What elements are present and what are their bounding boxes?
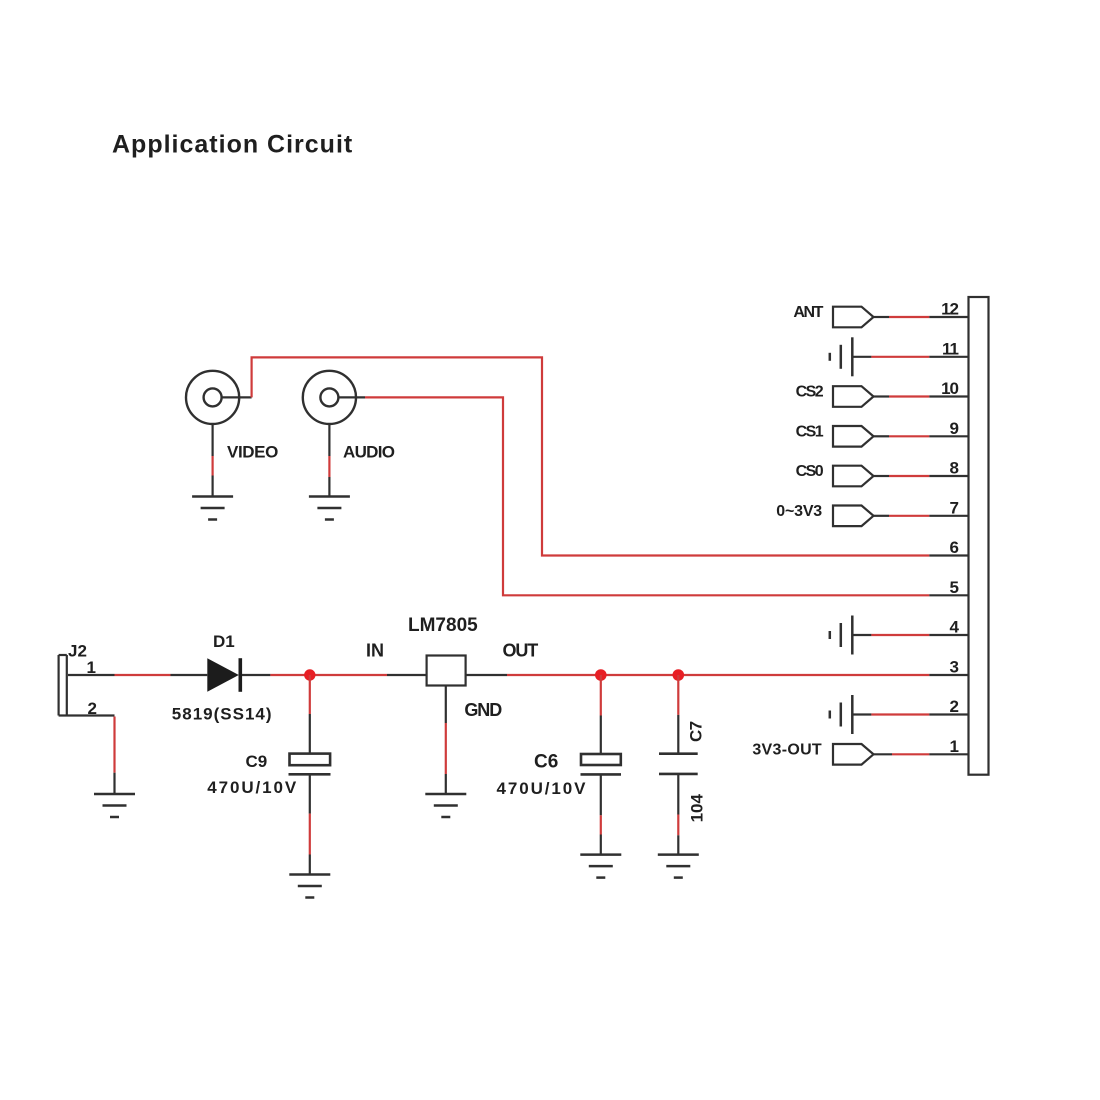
wire AUDIO ground lead bbox=[328, 424, 330, 497]
wire pin 2 bbox=[852, 713, 968, 715]
svg-text:9: 9 bbox=[950, 419, 959, 438]
capacitor C7 plates bbox=[659, 754, 698, 774]
ground (C9) bbox=[289, 875, 330, 898]
diode D1 bbox=[207, 658, 240, 692]
svg-text:OUT: OUT bbox=[503, 641, 539, 661]
svg-text:D1: D1 bbox=[213, 632, 235, 651]
connector AUDIO (RCA jack) bbox=[303, 371, 356, 424]
regulator LM7805 bbox=[427, 656, 466, 686]
svg-text:3V3-OUT: 3V3-OUT bbox=[752, 741, 822, 758]
wire pin 4 bbox=[852, 634, 968, 636]
svg-text:AUDIO: AUDIO bbox=[343, 443, 395, 462]
svg-text:C9: C9 bbox=[246, 752, 268, 771]
wire pin 11 bbox=[852, 356, 968, 358]
wire D1 to LM7805 IN bbox=[242, 674, 427, 676]
wire VIDEO ground lead bbox=[212, 424, 214, 497]
svg-text:10: 10 bbox=[941, 379, 958, 398]
svg-text:CS2: CS2 bbox=[796, 384, 824, 401]
svg-text:470U/10V: 470U/10V bbox=[207, 778, 298, 797]
pin 10 flag CS2 bbox=[833, 386, 874, 407]
header connector body (12-pin) bbox=[969, 297, 989, 775]
connector VIDEO (RCA jack) bbox=[186, 371, 239, 424]
ground (AUDIO) bbox=[309, 497, 350, 520]
connector J2 (DC jack) bbox=[59, 655, 67, 716]
wire J2 pin 2 to ground bbox=[59, 716, 115, 795]
svg-text:ANT: ANT bbox=[793, 304, 823, 321]
wire pin 6 black end bbox=[929, 554, 968, 556]
svg-text:3: 3 bbox=[950, 657, 959, 676]
ground (pin 11) bbox=[830, 337, 853, 376]
svg-text:470U/10V: 470U/10V bbox=[497, 779, 588, 798]
ground (C7) bbox=[658, 855, 699, 878]
svg-text:CS0: CS0 bbox=[796, 463, 824, 480]
capacitor C9 plates bbox=[289, 754, 331, 775]
svg-text:LM7805: LM7805 bbox=[408, 615, 478, 636]
pin 8 flag CS0 bbox=[833, 466, 874, 487]
wire LM7805 GND lead bbox=[445, 686, 447, 795]
junction dot (C9 node) bbox=[304, 669, 315, 680]
svg-text:IN: IN bbox=[366, 641, 384, 661]
svg-text:1: 1 bbox=[950, 737, 959, 756]
wire J2 pin 1 to D1 bbox=[68, 674, 207, 676]
svg-text:C7: C7 bbox=[687, 721, 706, 742]
svg-text:2: 2 bbox=[950, 697, 959, 716]
svg-text:104: 104 bbox=[688, 793, 707, 822]
junction dot (C7 node) bbox=[673, 669, 685, 681]
svg-text:7: 7 bbox=[950, 498, 959, 517]
svg-text:J2: J2 bbox=[68, 642, 87, 661]
wire VIDEO center stub bbox=[222, 396, 252, 398]
svg-text:5819(SS14): 5819(SS14) bbox=[172, 704, 273, 723]
junction dot (C6 node) bbox=[595, 669, 607, 681]
svg-text:0~3V3: 0~3V3 bbox=[776, 503, 822, 520]
ground (pin 4) bbox=[830, 616, 853, 655]
svg-text:6: 6 bbox=[950, 538, 959, 557]
wire AUDIO net to header pin 5 (red) bbox=[365, 397, 929, 595]
svg-text:GND: GND bbox=[464, 700, 502, 720]
pin 9 flag CS1 bbox=[833, 426, 874, 447]
wire pin 5 black end bbox=[929, 594, 968, 596]
ground (VIDEO) bbox=[192, 497, 233, 520]
wire pin 7 bbox=[874, 515, 969, 517]
svg-text:Application Circuit: Application Circuit bbox=[112, 130, 353, 158]
svg-text:VIDEO: VIDEO bbox=[227, 443, 278, 462]
ground (J2 pin 2) bbox=[94, 794, 135, 817]
svg-text:C6: C6 bbox=[534, 752, 558, 773]
svg-text:12: 12 bbox=[941, 300, 958, 319]
capacitor C6 plates bbox=[581, 754, 622, 774]
svg-text:CS1: CS1 bbox=[796, 423, 824, 440]
wire pin 9 bbox=[874, 435, 969, 437]
pin 1 flag 3V3-OUT bbox=[833, 744, 874, 765]
wire pin 12 bbox=[874, 316, 969, 318]
wire pin 10 bbox=[874, 395, 969, 397]
svg-text:4: 4 bbox=[950, 618, 960, 637]
capacitor C6 leads bbox=[600, 675, 602, 855]
ground (LM7805) bbox=[425, 794, 466, 817]
svg-text:11: 11 bbox=[942, 339, 959, 358]
wire AUDIO center stub bbox=[338, 396, 365, 398]
wire pin 8 bbox=[874, 475, 969, 477]
wire VIDEO net to header pin 6 (red) bbox=[252, 357, 930, 555]
ground (pin 2) bbox=[830, 695, 853, 734]
capacitor C7 leads bbox=[677, 675, 679, 855]
pin 12 flag ANT bbox=[833, 307, 874, 328]
pin 7 flag 0~3V3 bbox=[833, 506, 874, 527]
svg-text:5: 5 bbox=[950, 578, 959, 597]
svg-text:8: 8 bbox=[950, 459, 959, 478]
wire pin 1 bbox=[874, 753, 969, 755]
capacitor C9 leads bbox=[309, 675, 311, 875]
wire LM7805 OUT to header pin 3 (5V net) bbox=[466, 674, 969, 676]
ground (C6) bbox=[580, 855, 621, 878]
